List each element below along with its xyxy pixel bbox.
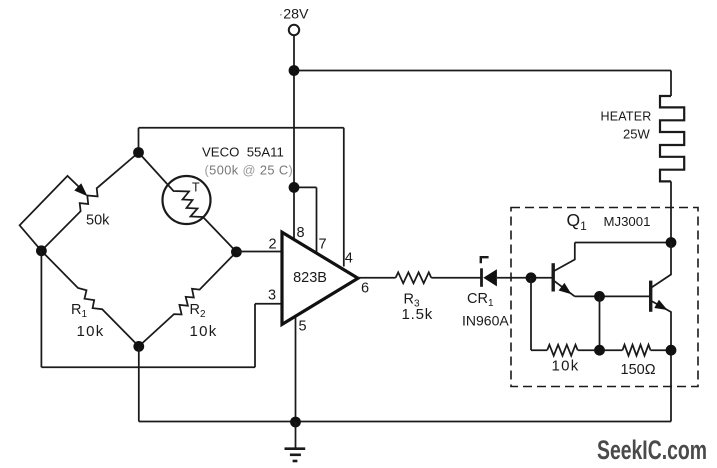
svg-text:1.5k: 1.5k — [402, 306, 434, 323]
svg-text:50k: 50k — [86, 213, 110, 229]
svg-text:5: 5 — [298, 319, 306, 335]
svg-text:4: 4 — [345, 251, 353, 267]
svg-text:VECO 55A11: VECO 55A11 — [202, 145, 284, 160]
svg-text:10k: 10k — [552, 358, 580, 375]
svg-text:2: 2 — [268, 237, 276, 253]
svg-text:HEATER: HEATER — [601, 110, 652, 124]
svg-text:·28V: ·28V — [279, 7, 310, 23]
svg-text:10k: 10k — [77, 323, 105, 340]
svg-text:IN960A: IN960A — [462, 313, 509, 329]
svg-text:T: T — [192, 181, 200, 195]
svg-text:7: 7 — [318, 237, 326, 253]
svg-text:3: 3 — [268, 288, 276, 304]
svg-text:MJ3001: MJ3001 — [604, 214, 651, 229]
svg-text:(500k @ 25 C): (500k @ 25 C) — [205, 163, 294, 178]
svg-text:8: 8 — [296, 225, 304, 241]
svg-text:6: 6 — [361, 281, 369, 297]
svg-text:150Ω: 150Ω — [621, 362, 656, 378]
svg-text:SeekIC.com: SeekIC.com — [597, 435, 707, 465]
svg-text:25W: 25W — [623, 127, 650, 142]
svg-text:10k: 10k — [190, 323, 218, 340]
svg-text:823B: 823B — [293, 270, 327, 286]
